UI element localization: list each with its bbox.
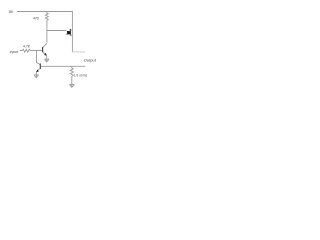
ground G3 under R3 [69, 84, 74, 87]
wire Q3 base rail to output- terminal [41, 65, 85, 67]
svg-text:4.7K: 4.7K [23, 45, 31, 49]
svg-text:470: 470 [33, 16, 39, 20]
ground G1 under Q1 [44, 59, 49, 62]
resistor R2 4.7K horizontal [20, 49, 42, 52]
wire input node down to Q3 collector [37, 51, 41, 65]
transistor Q2 (pass transistor) [66, 29, 72, 37]
transistor Q3 (current sense) [36, 63, 40, 72]
wire Q2 collector-emitter vertical [71, 12, 73, 52]
svg-text:input: input [10, 50, 19, 54]
wire node A to Q2 base [47, 30, 67, 32]
svg-text:1.9 ohms: 1.9 ohms [74, 73, 88, 77]
svg-text:Output: Output [84, 58, 97, 63]
wire Q1 emitter stem [46, 56, 48, 62]
transistor Q1 [43, 43, 47, 56]
wire Q2 emitter to output+ terminal [72, 51, 85, 53]
svg-text:5V: 5V [9, 10, 14, 14]
resistor R1 470 vertical [45, 12, 48, 43]
wire Q3 emitter stem [35, 72, 37, 78]
resistor R3 1.9 ohms vertical [70, 66, 73, 87]
ground G2 under Q3 [34, 75, 39, 78]
wire 5V rail top [17, 11, 73, 13]
